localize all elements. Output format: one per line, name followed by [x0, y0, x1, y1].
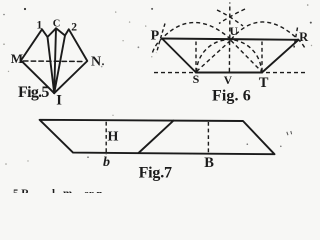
svg-text:H: H — [108, 130, 119, 145]
speckle k top right — [307, 4, 309, 6]
dashed baseline through S,V,T — [154, 72, 307, 74]
dashed vertical S up — [195, 42, 197, 72]
svg-text:C: C — [53, 18, 61, 29]
svg-text:m: m — [63, 188, 72, 194]
dot right of R — [310, 22, 312, 24]
svg-text:Fig.5: Fig.5 — [18, 84, 49, 101]
dashed chord U-T — [231, 41, 262, 72]
svg-text:B: B — [204, 155, 214, 171]
parallelogram outline — [40, 120, 275, 154]
svg-text:l: l — [52, 188, 55, 194]
fan outline M-1-v1-C-v2-2-N-I — [21, 28, 87, 93]
svg-text:S: S — [193, 72, 200, 86]
internal diagonal — [139, 121, 174, 153]
dot above P — [151, 8, 153, 10]
dashed height at b — [105, 122, 107, 155]
svg-text:T: T — [259, 75, 269, 91]
speckle h — [5, 163, 7, 165]
svg-text:I: I — [56, 93, 62, 109]
faint dot mid page 2 — [101, 66, 103, 68]
dashed chord U-S — [197, 41, 231, 72]
quote tick 2 right of fig7 — [290, 131, 293, 134]
dot left margin — [3, 14, 5, 16]
dashed semicircle S-U-T — [197, 40, 262, 72]
dashed tick through R — [294, 28, 298, 48]
svg-text:Fig. 6: Fig. 6 — [212, 88, 251, 105]
svg-text:U: U — [230, 26, 239, 38]
speckle b — [129, 21, 130, 22]
svg-text:b: b — [103, 155, 110, 170]
svg-text:N: N — [91, 54, 101, 69]
svg-text:R: R — [299, 30, 309, 44]
faint cut-off text at bottom — [13, 188, 102, 201]
faint dot mid page — [138, 46, 140, 48]
dashed height at B — [207, 122, 209, 153]
speckle f — [3, 43, 5, 45]
paper background — [0, 0, 314, 193]
svg-text:M: M — [11, 51, 23, 66]
scan noise dots — [3, 4, 312, 165]
line P-R — [162, 39, 299, 40]
svg-text:er n: er n — [84, 188, 102, 193]
speckle c — [145, 25, 146, 26]
dot right of fig7 — [280, 146, 282, 148]
speckle j — [112, 115, 113, 116]
speckle e — [151, 56, 152, 57]
quote tick 1 right of fig7 — [287, 132, 288, 135]
dashed tick through P — [157, 24, 166, 54]
svg-text:V: V — [224, 75, 233, 87]
speckle a — [115, 11, 116, 12]
speckle i — [27, 160, 28, 161]
period after N — [102, 63, 104, 65]
dashed vertical above U — [229, 3, 231, 39]
dashed arc segment radius ST centre T — [219, 9, 245, 24]
speckle l right edge — [311, 45, 312, 46]
crease I to C — [54, 28, 56, 93]
crease I to v2 — [54, 36, 65, 94]
dashed vertical T up — [261, 42, 263, 72]
dashed arc centre S through P,U — [153, 22, 232, 52]
crease I to v1 — [48, 37, 55, 93]
line P-S — [162, 39, 196, 73]
dashed arc centre T through U,R — [231, 22, 306, 50]
dashed line M-N — [24, 60, 86, 63]
dashed arc segment radius ST centre S — [217, 10, 243, 26]
svg-text:Fig.7: Fig.7 — [139, 165, 172, 182]
dot above fig5 — [24, 8, 26, 10]
svg-text:5 R: 5 R — [13, 188, 30, 194]
speckle d — [122, 40, 123, 41]
dot below fig7 right — [247, 143, 249, 145]
line T-R — [262, 40, 299, 73]
line S-T — [196, 71, 262, 73]
svg-text:P: P — [151, 28, 160, 43]
dot on fig7 bottom edge — [87, 156, 89, 158]
speckle g — [8, 71, 9, 72]
dashed vertical V-U — [228, 41, 230, 72]
svg-text:1: 1 — [37, 19, 43, 31]
svg-text:2: 2 — [71, 22, 77, 34]
